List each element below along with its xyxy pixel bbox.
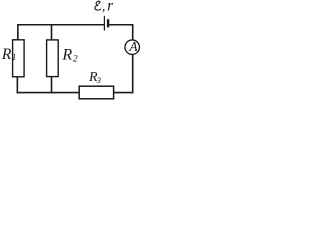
svg-text:2: 2 [73, 55, 78, 65]
resistor R3 box [79, 86, 113, 99]
wire: vertical above R1 [17, 24, 19, 40]
wire: right vertical above ammeter [132, 24, 134, 40]
wire: top horizontal, right segment (battery to top-right corner) [109, 24, 133, 26]
svg-text:R: R [61, 46, 72, 63]
wire: left vertical below R1 [16, 77, 18, 94]
wire: vertical below R2 [51, 77, 53, 94]
svg-text:A: A [128, 39, 138, 54]
wire: vertical above R2 [51, 24, 53, 40]
svg-text:r: r [107, 0, 114, 15]
battery E short plate [107, 19, 109, 27]
wire: top horizontal, left segment (R1 corner to battery) [17, 24, 104, 26]
label R3 [88, 70, 101, 85]
svg-text:R: R [1, 46, 12, 63]
battery E long plate [103, 16, 105, 31]
label R1 [1, 46, 17, 63]
ammeter A circle [125, 40, 140, 55]
resistor R2 box [47, 40, 59, 77]
svg-text:,: , [102, 0, 106, 15]
svg-text:1: 1 [12, 52, 17, 62]
label EMF e, r [95, 0, 114, 15]
wire: bottom horizontal, left segment (corner to R3) [17, 92, 80, 94]
background [0, 0, 145, 104]
resistor R1 box [13, 40, 25, 77]
svg-text:3: 3 [96, 75, 101, 85]
wire: right vertical below ammeter [132, 54, 134, 93]
wire: bottom horizontal, right segment (R3 to corner) [114, 92, 134, 94]
label R2 [61, 46, 78, 64]
